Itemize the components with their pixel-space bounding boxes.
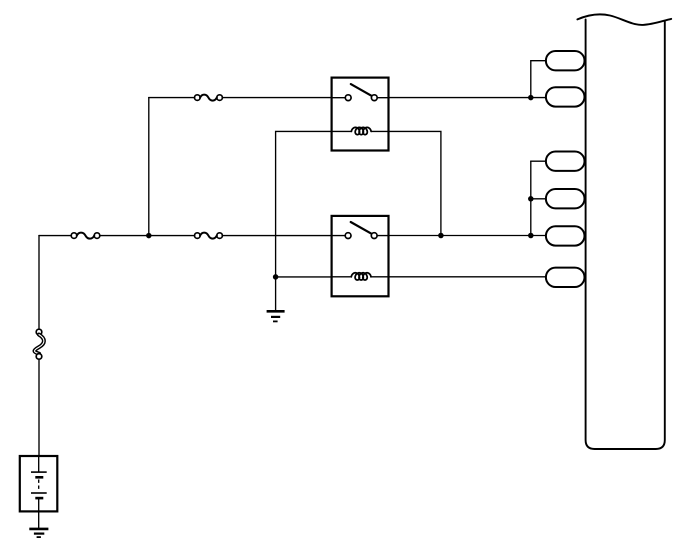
node C junction (coil drop joins) [438, 233, 444, 239]
wire riser node A up [148, 98, 150, 236]
relay K2 coil [332, 273, 389, 280]
ground G2 (battery) [29, 529, 48, 537]
node A junction [146, 233, 152, 239]
wire F3 to relay K1 [222, 97, 331, 99]
wire K2 switch out to pin 5 [389, 235, 546, 237]
wire bus node A to F2 [149, 235, 195, 237]
wire stub to pin 4 [531, 198, 546, 200]
connector pin 4 [546, 189, 585, 208]
fusible link FL1 [34, 329, 43, 359]
wire bus F1 to node A [100, 235, 149, 237]
wire K1 coil left branch [276, 131, 332, 310]
battery BT1 cells [31, 456, 47, 529]
relay K2 box [332, 216, 389, 296]
relay K1 switch [332, 84, 389, 101]
fuse F1 [71, 233, 100, 239]
wire node B stub to pin 2 [531, 97, 546, 99]
connector pin 3 [546, 152, 585, 171]
wire node F to K2 coil [276, 276, 332, 278]
harness torn top edge [577, 14, 671, 25]
connector pin 6 [546, 268, 585, 287]
wire main bus left segment [39, 235, 71, 237]
wire node B riser up [530, 61, 532, 98]
relay K1 coil [332, 127, 389, 134]
harness body [586, 20, 665, 450]
node E junction [528, 196, 534, 202]
connector pin 1 [546, 51, 585, 70]
connector pin 2 [546, 87, 585, 106]
ground G1 [267, 311, 285, 321]
wire node D riser up [530, 161, 532, 235]
wire bus F2 to relay K2 [222, 235, 331, 237]
battery BT1 box [20, 456, 58, 511]
wire fusible link to battery [38, 359, 40, 456]
fuse F2 [195, 233, 223, 239]
connector pin 5 [546, 226, 585, 245]
wire K1 switch out to node B [389, 97, 531, 99]
relay K1 box [332, 78, 389, 151]
wire K1 coil out [389, 131, 441, 235]
node D junction [528, 233, 534, 239]
wire stub to pin 1 [531, 60, 546, 62]
fuse F3 [195, 95, 223, 101]
wire stub to pin 3 [531, 160, 546, 162]
node B junction [528, 95, 534, 101]
wire K2 coil out to pin 6 [389, 276, 546, 278]
node F junction [273, 274, 279, 280]
wire top branch to F3 [149, 97, 195, 99]
wire battery drop upper [38, 236, 40, 330]
relay K2 switch [332, 222, 389, 239]
